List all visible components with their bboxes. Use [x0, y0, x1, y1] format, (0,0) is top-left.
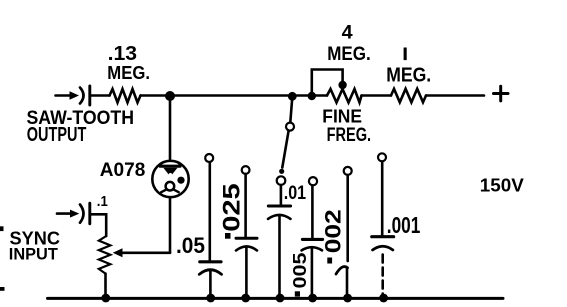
edge mark lower: [0, 287, 5, 291]
capacitor C3 .025 top plate: [236, 237, 257, 240]
wire .001 branch: [381, 162, 384, 235]
edge mark upper: [0, 226, 4, 231]
capacitor C4 .01 curved plate: [268, 215, 291, 219]
capacitor C-sync .1 curved plate: [80, 205, 84, 223]
capacitor C2 .05 curved plate: [199, 270, 221, 275]
tube V1 anode notch: [169, 173, 173, 177]
tube V1 cathode left foot: [161, 190, 166, 193]
svg-text:OUTPUT: OUTPUT: [27, 124, 86, 146]
wire .002 to bus: [346, 268, 349, 299]
switch contact .025: [242, 166, 250, 174]
capacitor C3 .025 curved plate: [236, 246, 257, 250]
node main junction A: [165, 91, 175, 101]
potentiometer R4 zigzag: [99, 236, 111, 274]
node pot loop left: [308, 92, 316, 100]
wire .05 branch: [209, 162, 212, 260]
wire ground bus: [48, 297, 504, 300]
svg-text:.001: .001: [387, 212, 421, 238]
capacitor C-sync arrow: [70, 210, 79, 218]
wire cap to resistor: [91, 94, 110, 97]
tube V1 cathode ring: [166, 182, 175, 191]
tube V1 cathode right foot: [174, 190, 179, 193]
node bus .05: [206, 294, 215, 303]
node bus .01: [276, 294, 285, 303]
capacitor C-sawtooth curved plate: [80, 88, 84, 104]
svg-text:MEG.: MEG.: [386, 65, 431, 87]
wire .005 to bus: [311, 247, 314, 298]
switch arm: [282, 131, 288, 168]
wire main top line: [141, 94, 328, 97]
svg-text:.13: .13: [108, 43, 138, 65]
tube V1 gas dot: [177, 177, 184, 184]
wire .025 to bus: [245, 247, 248, 298]
wire .01 branch: [280, 185, 283, 204]
wire .025 branch: [244, 174, 247, 237]
wire saw-tooth input lead: [56, 94, 71, 97]
wire switch pole drop: [290, 97, 292, 122]
wire tube bottom lead: [169, 198, 172, 253]
resistor R1 .13 MEG zigzag: [110, 89, 141, 103]
wiper arrowhead: [113, 248, 123, 257]
node bus .025: [241, 294, 250, 303]
label 1: [404, 48, 407, 61]
tube V1 A078 envelope: [152, 161, 188, 197]
svg-text:FINE: FINE: [322, 105, 362, 126]
node bus .001: [379, 294, 388, 303]
svg-text:.05: .05: [176, 233, 205, 258]
tube V1 anode bar right ear: [178, 164, 180, 167]
wire between resistors: [362, 94, 392, 97]
capacitor C5 .005 curved plate: [302, 247, 322, 250]
switch contact .05: [205, 154, 213, 162]
svg-text:INPUT: INPUT: [9, 245, 59, 264]
node wiper dot R2: [338, 81, 346, 89]
svg-text:MEG.: MEG.: [107, 63, 150, 83]
switch contact .01: [277, 176, 286, 185]
node bus pot: [101, 294, 110, 303]
svg-text:002: 002: [321, 209, 346, 253]
capacitor C-sawtooth straight plate: [88, 86, 91, 105]
svg-text:150V: 150V: [480, 175, 525, 196]
svg-text:A078: A078: [100, 160, 146, 181]
wire to plus terminal: [426, 94, 484, 97]
wire cap to pot corner: [91, 214, 106, 236]
svg-text:005: 005: [290, 253, 310, 289]
capacitor C7 .001 curved plate: [373, 246, 393, 250]
svg-text:.1: .1: [97, 194, 108, 210]
switch contact .005: [309, 177, 317, 185]
wire .01 to bus: [278, 215, 281, 298]
resistor R3 1 MEG zigzag: [391, 89, 426, 103]
wire pot loop R2: [312, 70, 343, 97]
wire sync input lead: [57, 212, 71, 215]
capacitor C4 .01 top plate: [268, 205, 290, 208]
svg-text:MEG.: MEG.: [327, 43, 371, 65]
capacitor C2 .05 top plate: [200, 260, 221, 263]
tube V1 anode arrow: [163, 168, 177, 177]
wire wiper horizontal: [122, 252, 170, 255]
capacitor C7 .001 top plate: [372, 235, 394, 238]
resistor R2 4 MEG zigzag: [327, 89, 362, 103]
capacitor C5 .005 top plate: [302, 238, 322, 241]
switch pole contact: [286, 123, 294, 131]
tube V1 anode bar: [160, 165, 180, 168]
switch arm tip dot: [279, 169, 284, 174]
wire pot bottom to bus: [104, 274, 107, 298]
node switch branch: [288, 92, 297, 101]
node bus .002: [343, 294, 352, 303]
node bus .005: [308, 294, 317, 303]
plus terminal: [494, 86, 509, 101]
switch contact .002: [344, 167, 352, 175]
wire .05 to bus: [209, 270, 212, 298]
switch contact .001: [378, 153, 386, 161]
svg-text:.01: .01: [284, 182, 306, 204]
capacitor C-sync .1 straight plate: [88, 203, 91, 224]
wire .005 branch: [311, 185, 314, 237]
svg-text:FREG.: FREG.: [327, 125, 372, 146]
svg-text:4: 4: [342, 21, 353, 43]
tube V1 anode bar left ear: [160, 164, 162, 167]
wire .002 branch: [346, 175, 349, 261]
capacitor C6 .002 curved plate: [336, 267, 348, 274]
svg-text:025: 025: [218, 183, 245, 232]
capacitor C-sawtooth arrow: [70, 91, 80, 99]
wire tube top lead: [169, 96, 172, 160]
wire .001 dashed lead to bus: [381, 255, 384, 299]
